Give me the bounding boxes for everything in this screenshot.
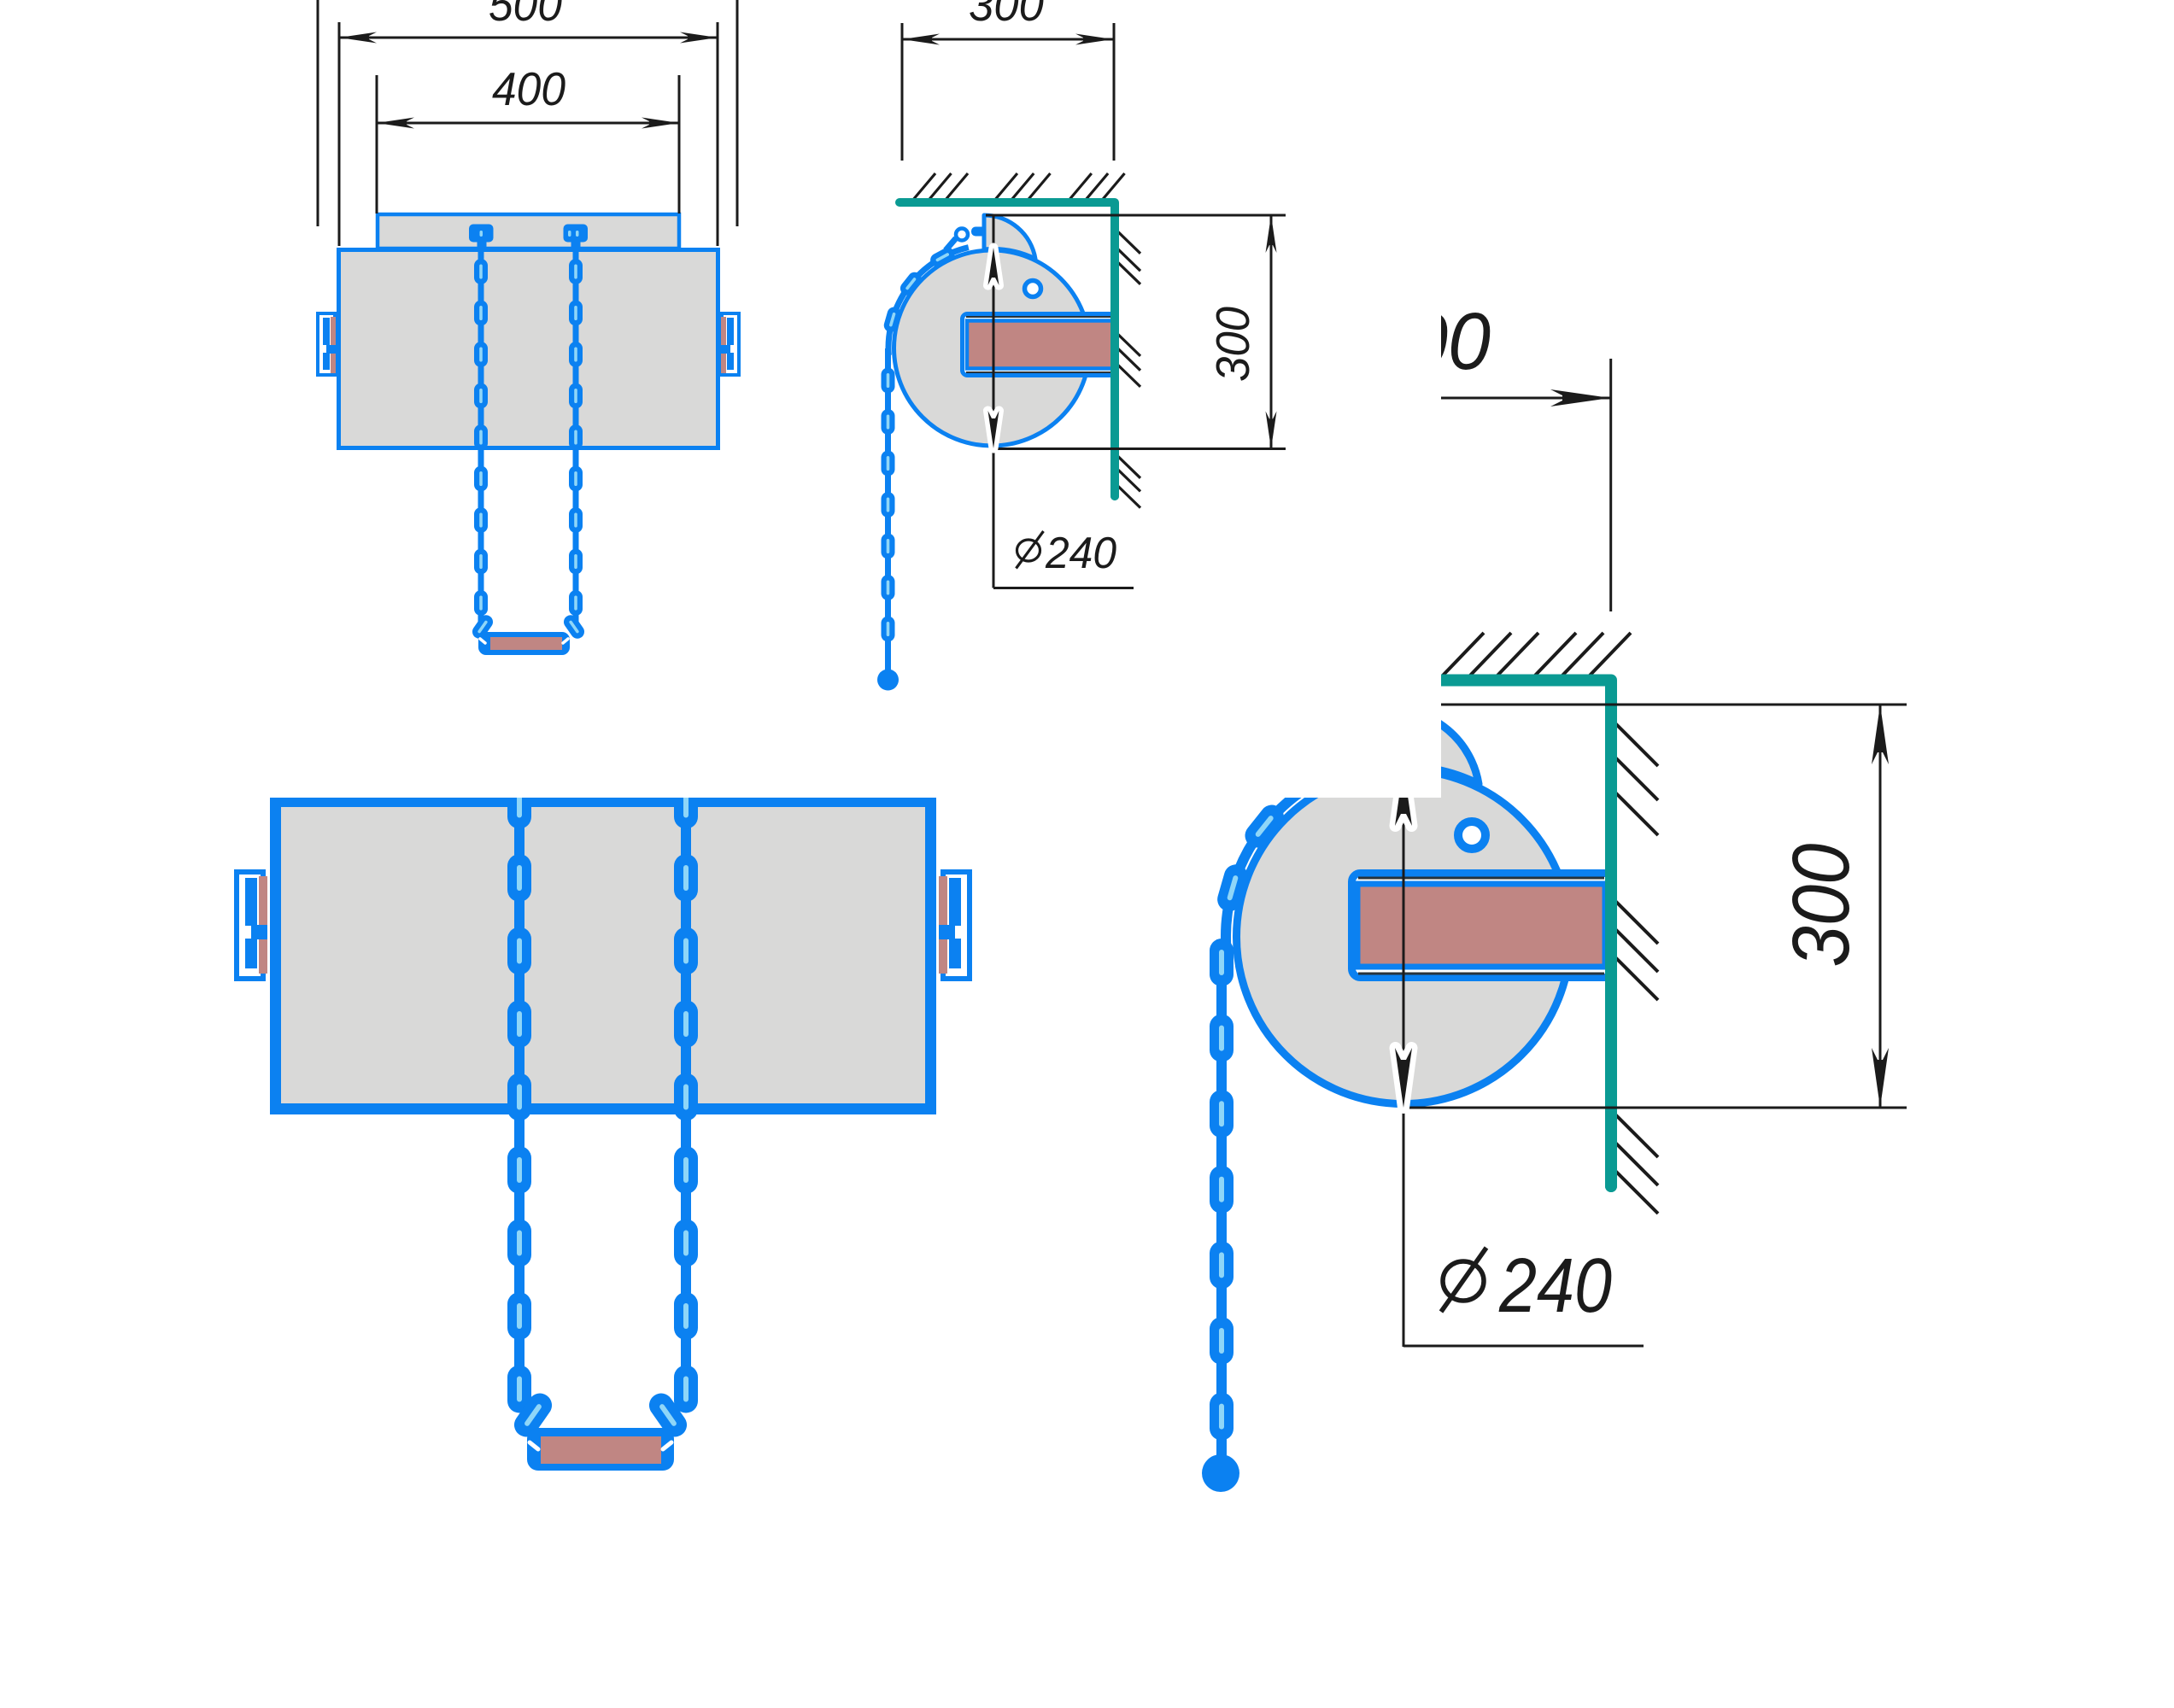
right chain (large) bbox=[644, 781, 698, 1442]
diameter leader bbox=[993, 587, 1134, 589]
wall angle bracket (teal, large) bbox=[1418, 681, 1611, 1187]
drum lid (400 wide) bbox=[378, 214, 679, 249]
chain ring bbox=[956, 229, 968, 241]
chain top link at fin bbox=[971, 227, 986, 237]
wall hatch bbox=[1112, 226, 1140, 508]
diameter line bbox=[993, 215, 995, 588]
dimension 500: left extension line bbox=[338, 22, 341, 246]
left chain bbox=[470, 246, 495, 641]
left chain (large) bbox=[507, 781, 557, 1442]
circle-bottom extension line (large) bbox=[1403, 1107, 1907, 1109]
left axle bracket bbox=[318, 313, 337, 375]
dimension line top (cut, large) bbox=[1392, 389, 1610, 407]
pull handle (small) bbox=[478, 632, 570, 655]
dimension text ø240 (large) bbox=[1441, 1243, 1612, 1329]
chain arc over pulley bbox=[882, 238, 969, 355]
left axle bracket (large) bbox=[237, 872, 267, 979]
right chain bolt bbox=[564, 225, 589, 251]
chain end ball (large) bbox=[1202, 1454, 1239, 1492]
hanging chain bbox=[882, 348, 895, 673]
chain arc over pulley (large) bbox=[1215, 759, 1363, 950]
right chain bbox=[561, 246, 587, 641]
right axle bracket (large) bbox=[939, 872, 970, 979]
svg-text:300: 300 bbox=[1206, 307, 1259, 382]
drum body bbox=[339, 250, 718, 448]
wall post (teal, over beam) bbox=[1110, 207, 1119, 496]
dimension line 300 right bbox=[1266, 215, 1277, 449]
dimension line 300 top bbox=[902, 34, 1113, 45]
wall angle bracket (teal) bbox=[899, 202, 1115, 496]
dimension 300 top: right extension line bbox=[1113, 23, 1116, 161]
ceiling hatch (large) bbox=[1441, 633, 1631, 677]
fin-tip extension line (large) bbox=[1387, 704, 1907, 706]
dimension 400: left extension line bbox=[376, 75, 378, 213]
dimension 400: right extension line bbox=[678, 75, 681, 213]
diameter arrows with halo (large) bbox=[1396, 766, 1412, 826]
diameter arrows with halo bbox=[988, 248, 999, 285]
mounting hole (small view, drawn after for clarity) bbox=[1025, 281, 1041, 297]
axle beam (large) bbox=[1352, 874, 1614, 978]
hanging chain (large) bbox=[1210, 939, 1233, 1465]
right axle bracket bbox=[720, 313, 739, 375]
svg-text:240: 240 bbox=[1498, 1243, 1612, 1329]
dimension 500: right outer extension line (cropped dim) bbox=[736, 0, 739, 226]
svg-text:500: 500 bbox=[489, 0, 562, 31]
wall hatch (large) bbox=[1611, 719, 1658, 1214]
axle beam bbox=[963, 314, 1116, 376]
dimension line 500 bbox=[339, 32, 718, 44]
svg-text:400: 400 bbox=[492, 62, 565, 115]
circle-bottom extension line bbox=[993, 447, 1286, 450]
ceiling hatch bbox=[911, 173, 1125, 203]
wall post (teal, over beam, large) bbox=[1605, 686, 1617, 1186]
diameter leader (large) bbox=[1403, 1345, 1644, 1348]
mounting hole (large) bbox=[1458, 822, 1485, 849]
dimension 500: left outer extension line (cropped dim) bbox=[317, 0, 319, 226]
pulley disc bbox=[894, 250, 1090, 446]
fin-tip extension line bbox=[986, 214, 1286, 217]
svg-text:240: 240 bbox=[1045, 529, 1116, 578]
pulley disc (large) bbox=[1237, 770, 1571, 1104]
dimension line 300 right (large) bbox=[1872, 705, 1889, 1108]
cam fin bbox=[984, 215, 1035, 259]
svg-text:300: 300 bbox=[969, 0, 1044, 31]
cam fin (large) bbox=[1390, 709, 1479, 784]
diameter line (large) bbox=[1403, 766, 1405, 1347]
dimension 500: right extension line bbox=[717, 22, 719, 246]
left chain bolt bbox=[469, 225, 494, 251]
svg-text:300: 300 bbox=[1776, 843, 1866, 967]
svg-text:300: 300 bbox=[1362, 296, 1491, 387]
pull handle (large) bbox=[527, 1428, 674, 1471]
dimension line 400 bbox=[377, 118, 679, 129]
dimension 300 top: left extension line bbox=[901, 23, 904, 161]
wall corner extension line (large) bbox=[1609, 359, 1612, 611]
dimension text ø240 bbox=[1017, 529, 1117, 578]
drum body (large) bbox=[276, 802, 931, 1109]
chain end ball bbox=[877, 670, 899, 691]
